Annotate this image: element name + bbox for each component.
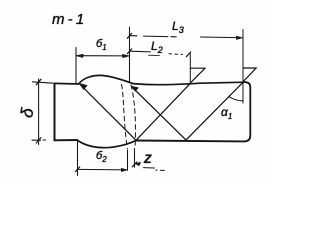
b1 right arrowhead [122,54,129,57]
Z right small arrow [135,162,141,166]
stray dashes under L2 label [149,54,160,56]
diagonal D4 [186,82,243,140]
label b1 [96,38,107,52]
delta bottom extension line [32,139,46,141]
Z extension line left [127,150,129,170]
L2 left tick [127,49,131,54]
b1 left arrowhead [76,54,83,57]
weld mark flag 1 extension line [189,54,191,84]
label delta [17,107,38,120]
label b2 [96,150,107,164]
fusion zone dashed curve left [122,85,128,149]
left plate top edge [55,82,79,85]
label alpha1 [221,105,232,121]
Z extension line right [134,149,136,168]
flash bulge bottom arc [77,140,136,148]
dimension line b1 [76,55,130,57]
diagonal D2 [132,87,187,141]
L2 right tick [186,52,190,57]
D1 arrowhead on bulge [79,83,87,89]
left plate bottom edge [55,139,78,141]
fusion zone dashed curve right [131,85,135,148]
right part top edge [133,82,246,85]
diagonal D1 [80,84,136,140]
weld mark flag 2 triangle [243,68,256,82]
weld mark flag 1 triangle [190,68,205,83]
right part bottom edge [136,140,245,143]
b2 right arrowhead [121,168,127,171]
delta tick top [36,79,41,85]
label m-1 [52,11,84,28]
flash bulge top arc [79,75,134,84]
diagonal D3 [136,83,191,140]
Z right tick [132,162,137,167]
delta tick bottom [36,138,41,143]
delta dimension line [38,79,40,145]
b1 extension line left [75,48,77,84]
angle alpha1 arc [230,97,243,101]
dimension line L3 [130,36,238,38]
D2 arrowhead on bulge [131,86,138,91]
Z leader dash-dot tail [156,169,164,171]
b2 extension line left [77,141,79,176]
dimension line L2 [130,50,151,53]
Z label underline leader [144,167,155,169]
label L2 [151,39,163,55]
weld mark flag 2 extension line [242,30,244,104]
dimension extension line x129 [129,27,131,82]
right part rounded right edge [245,82,251,141]
label Z [144,152,151,166]
left plate left edge [54,84,56,141]
L3 left tick [127,33,131,38]
L3 right arrowhead [236,36,242,39]
L2 trailing dots [169,53,183,56]
dimension line b2 [78,168,128,171]
label L3 [172,19,184,35]
b2 left tick [75,167,79,172]
delta top extension line [33,82,54,83]
